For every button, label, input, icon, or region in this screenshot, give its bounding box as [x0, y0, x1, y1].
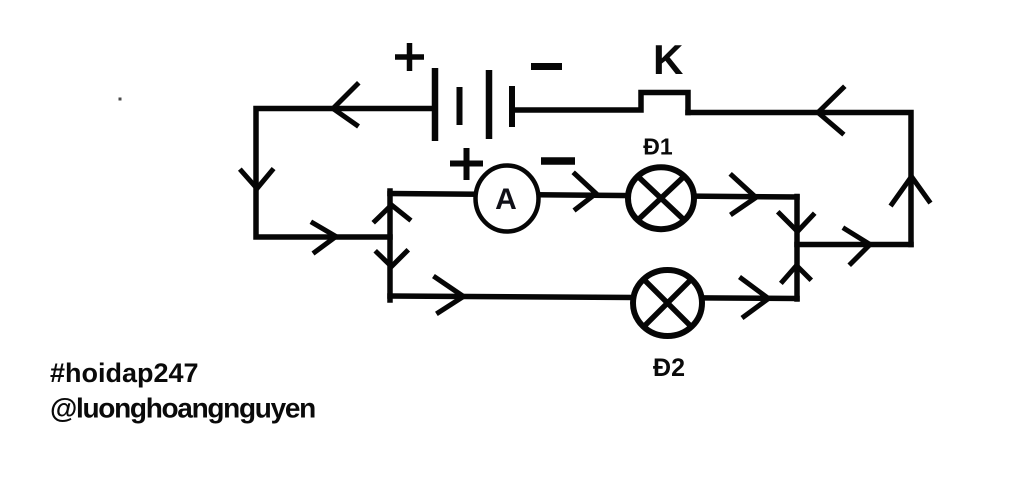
svg-text:A: A [495, 183, 517, 216]
svg-text:Đ1: Đ1 [643, 134, 673, 160]
svg-text:K: K [653, 36, 683, 83]
svg-text:Đ2: Đ2 [653, 354, 685, 382]
svg-text:#hoidap247: #hoidap247 [50, 358, 199, 388]
svg-text:@luonghoangnguyen: @luonghoangnguyen [50, 393, 315, 424]
